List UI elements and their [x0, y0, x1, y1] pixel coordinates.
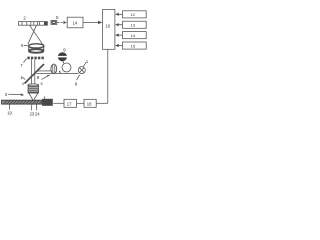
box 17 — [64, 99, 77, 107]
vertical beam pair — [30, 59, 32, 84]
dashed beam to modulator box — [57, 22, 63, 24]
svg-text:14: 14 — [131, 33, 136, 38]
objective barrel — [28, 84, 39, 93]
svg-text:13: 13 — [131, 23, 136, 28]
lamp detector — [78, 67, 85, 74]
stage right block — [42, 99, 53, 106]
svg-text:24: 24 — [35, 111, 40, 116]
wire box17 to box18 — [77, 102, 85, 104]
module box 14b — [123, 32, 147, 39]
box 18 — [84, 99, 96, 107]
beam expander spool — [29, 44, 44, 53]
label 10 leader — [83, 62, 86, 66]
arrowhead into box 14 — [63, 21, 66, 24]
filter pointer arrow — [41, 76, 48, 80]
wire stage to box 17 — [53, 102, 64, 104]
label 3 leader — [5, 92, 8, 97]
tick above stage block — [44, 96, 46, 98]
arrow 13 to 16 — [119, 24, 123, 26]
label 12 leader to mirror — [20, 75, 23, 80]
controller box 16 — [103, 10, 115, 50]
arrow 15 to 16 — [119, 45, 123, 47]
lens mount dashed bar — [27, 57, 44, 60]
leader 19 below stage — [9, 104, 11, 109]
eye ball — [58, 52, 67, 61]
module box 12 — [123, 11, 147, 18]
svg-text:16: 16 — [105, 23, 110, 28]
svg-text:12: 12 — [131, 12, 136, 17]
ocular lens circle — [62, 63, 71, 72]
box 14 — [67, 17, 83, 28]
module box 13 — [123, 21, 147, 28]
eye stem — [62, 61, 65, 63]
wire box18 to controller — [96, 102, 108, 104]
label 6 arrow — [21, 43, 24, 48]
svg-text:14: 14 — [73, 21, 78, 26]
arrowhead into controller — [98, 21, 102, 24]
horizontal beam rays — [36, 70, 51, 72]
svg-text:17: 17 — [67, 101, 72, 106]
wire box14 to controller — [83, 21, 98, 23]
dichroic mirror — [25, 64, 45, 84]
svg-text:15: 15 — [131, 43, 136, 48]
tick left of ocular — [58, 71, 61, 73]
arrow 12 to 16 — [119, 13, 123, 15]
filter (hatched) — [51, 64, 57, 74]
svg-text:5: 5 — [41, 81, 43, 86]
laser tube assembly — [19, 22, 48, 26]
module box 15 — [123, 42, 147, 49]
leader 23 below stage — [30, 104, 32, 110]
arrow 14b to 16 — [119, 34, 123, 36]
focus cone — [29, 93, 33, 100]
label above eye — [63, 47, 66, 52]
svg-text:18: 18 — [87, 101, 92, 106]
label 5 — [56, 15, 59, 20]
objective side labels — [22, 81, 25, 86]
shutter component — [51, 20, 57, 24]
label 11 below detector — [77, 75, 80, 80]
label 7 leader — [20, 63, 23, 68]
specimen stage — [2, 100, 43, 104]
beam X crossing below laser — [30, 25, 43, 44]
svg-text:19: 19 — [7, 111, 12, 116]
leader 24 below stage — [35, 104, 37, 110]
label 2 — [23, 15, 26, 20]
